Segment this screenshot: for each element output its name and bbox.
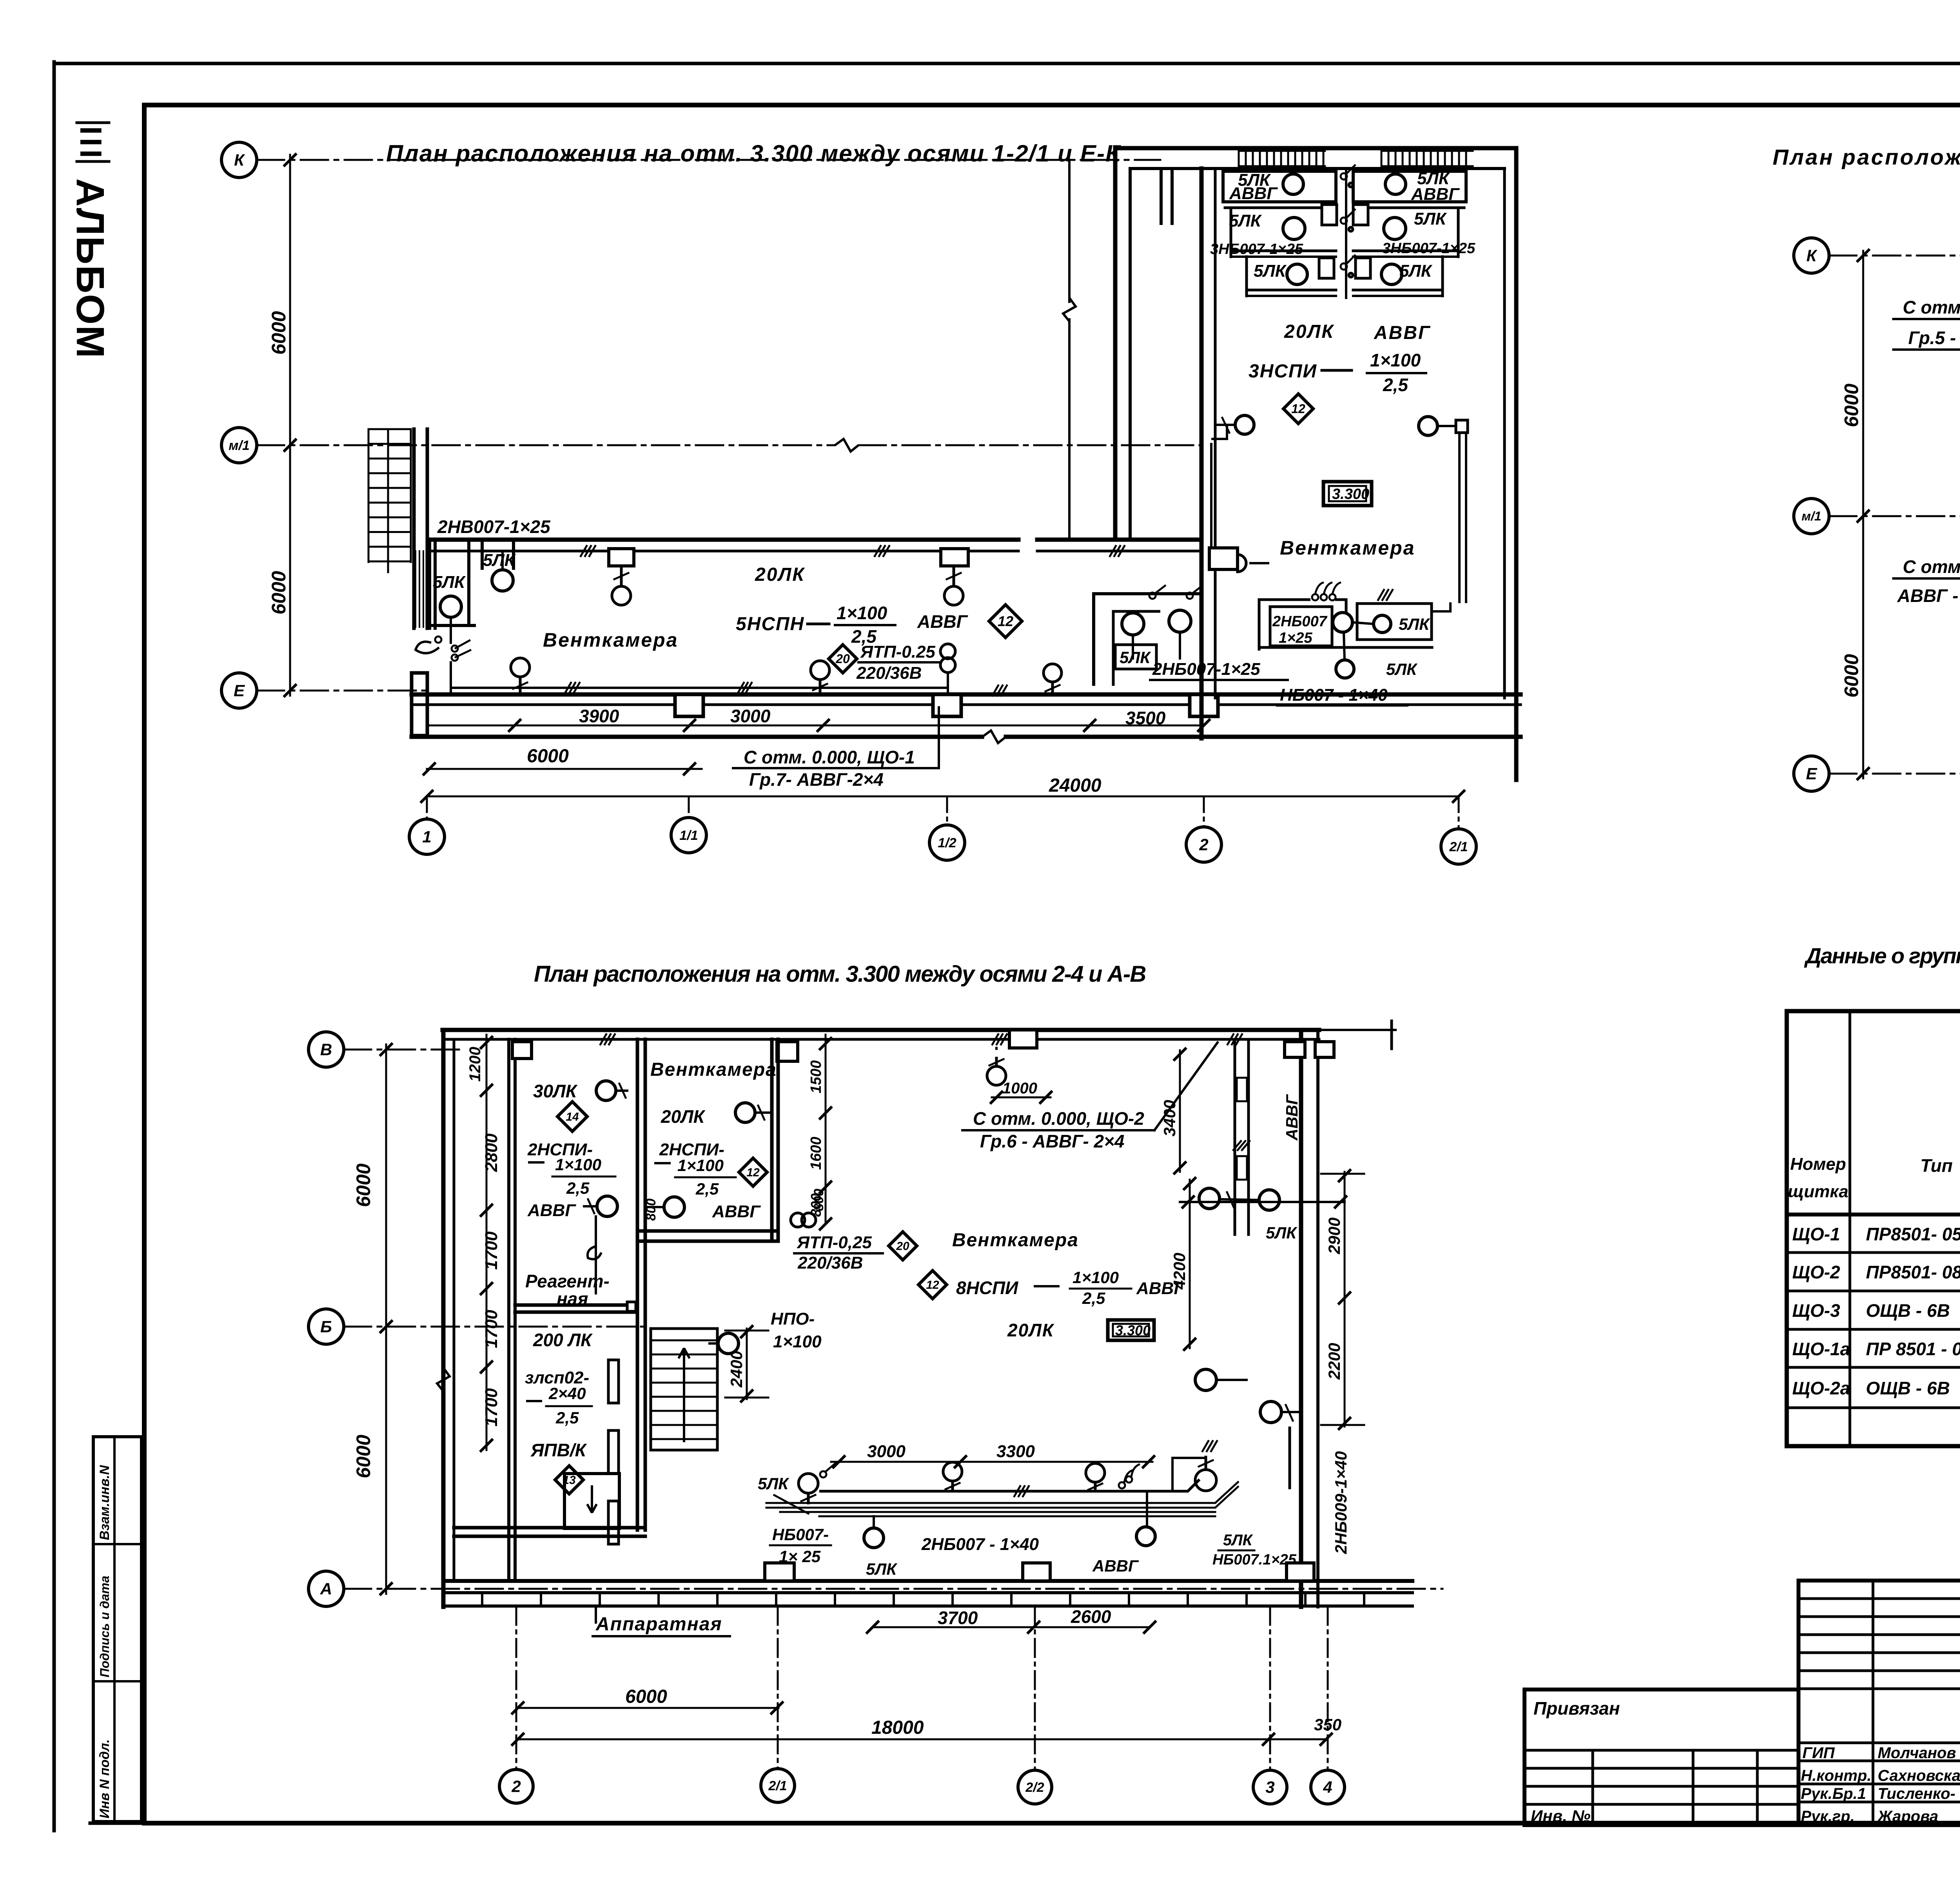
plan3 dim 2400 stairs (746, 1329, 748, 1399)
plan3 diamond 12 room (739, 1158, 767, 1186)
plan1 strip bottom wall (412, 692, 1521, 697)
svg-text:НБ007.1×25: НБ007.1×25 (1212, 1552, 1297, 1568)
plan3 stairs (651, 1329, 717, 1450)
svg-text:3500: 3500 (1125, 708, 1166, 728)
plan1 bottom cluster box2 (1357, 604, 1432, 640)
plan3 apparatnaya pit (564, 1474, 619, 1528)
svg-text:НПО-: НПО- (771, 1309, 815, 1329)
svg-text:12: 12 (1291, 402, 1305, 416)
plan3 wire left column (595, 1216, 597, 1293)
svg-text:АВВГ: АВВГ (1411, 185, 1460, 204)
plan3 right mid duct (1234, 1042, 1236, 1235)
svg-text:3НСПИ: 3НСПИ (1249, 361, 1317, 382)
svg-text:Тип: Тип (1920, 1155, 1953, 1176)
svg-text:ОЩВ - 6В: ОЩВ - 6В (1866, 1300, 1950, 1321)
plan3 heaters (608, 1360, 619, 1403)
plan3 dim 3700 2600 (873, 1626, 1150, 1628)
svg-text:20ЛК: 20ЛК (661, 1106, 706, 1127)
svg-text:Рук.Бр.1: Рук.Бр.1 (1801, 1785, 1866, 1802)
plan1 right cluster switches (1149, 593, 1156, 599)
plan3 bottom dim 6000 (516, 1707, 779, 1709)
plan1 diamond 20 and YaTP (829, 645, 857, 673)
plan3 dim 4200 (1189, 1180, 1191, 1348)
plan1 room lamp left (1235, 415, 1254, 434)
plan1 closet 2 walls (481, 542, 484, 568)
plan1 room mark 3.300 (1323, 482, 1372, 506)
plan3 axis circle A (309, 1571, 344, 1606)
svg-text:ЯТП-0.25: ЯТП-0.25 (860, 642, 935, 662)
svg-text:2НБ007 - 1×40: 2НБ007 - 1×40 (921, 1535, 1039, 1554)
plan1 diamond 12 strip (989, 605, 1022, 638)
svg-text:ЩО-1а: ЩО-1а (1792, 1339, 1850, 1359)
svg-text:С отм. 0.000, ЩО-1: С отм. 0.000, ЩО-1 (1903, 297, 1960, 317)
plan1 cluster boxes (1115, 645, 1156, 669)
plan3 reagent partition (515, 1303, 637, 1307)
plan1 pier axis 2 (1190, 694, 1218, 716)
table outer box (1787, 1011, 1960, 1446)
plan1 riser cable bundle (415, 551, 416, 627)
plan1 vent cluster left (1223, 171, 1336, 202)
svg-text:6000: 6000 (352, 1164, 374, 1207)
svg-text:ПР8501- 082: ПР8501- 082 (1866, 1262, 1960, 1282)
svg-text:2: 2 (1199, 836, 1208, 854)
svg-text:3400: 3400 (1160, 1100, 1179, 1137)
svg-text:Инв N подл.: Инв N подл. (97, 1739, 112, 1818)
margin strip table (93, 1437, 142, 1822)
svg-text:АВВГ: АВВГ (1092, 1557, 1139, 1575)
svg-text:20: 20 (896, 1240, 909, 1253)
svg-text:6000: 6000 (268, 571, 290, 615)
svg-text:2×40: 2×40 (548, 1384, 586, 1403)
svg-text:2НБ009-1×40: 2НБ009-1×40 (1332, 1451, 1350, 1554)
svg-text:3НБ007-1×25: 3НБ007-1×25 (1382, 240, 1475, 257)
svg-text:Подпись и дата: Подпись и дата (98, 1576, 112, 1677)
svg-text:АВВГ: АВВГ (527, 1201, 576, 1220)
svg-text:ЯПВ/К: ЯПВ/К (530, 1440, 587, 1460)
svg-text:800: 800 (644, 1198, 659, 1221)
svg-text:ЩО-3: ЩО-3 (1792, 1300, 1840, 1321)
svg-text:2,5: 2,5 (555, 1409, 579, 1427)
plan1 axis line E (257, 690, 425, 692)
svg-text:1×100: 1×100 (837, 603, 887, 623)
svg-text:Гр.5 - АВВГ- 2×2,5: Гр.5 - АВВГ- 2×2,5 (1908, 328, 1960, 348)
svg-text:4200: 4200 (1170, 1253, 1189, 1290)
svg-text:5ЛК: 5ЛК (1120, 648, 1151, 667)
svg-text:Аппаратная: Аппаратная (595, 1614, 722, 1635)
svg-text:2,5: 2,5 (1082, 1289, 1105, 1307)
svg-text:3.300: 3.300 (1115, 1322, 1151, 1338)
plan1 dim line 2 (427, 768, 702, 770)
svg-text:Молчанов: Молчанов (1878, 1744, 1956, 1762)
svg-text:3300: 3300 (996, 1442, 1035, 1461)
svg-text:2900: 2900 (1325, 1218, 1343, 1254)
svg-text:4: 4 (1323, 1778, 1332, 1796)
plan1 stair wall right (412, 429, 416, 628)
plan3 axis line V (344, 1049, 463, 1051)
plan1 room wall B (1200, 169, 1204, 738)
plan3 axis circle 2/1 (761, 1769, 795, 1802)
plan3 axis circle B (309, 1309, 344, 1344)
svg-text:5ЛК: 5ЛК (1229, 211, 1262, 230)
svg-text:5ЛК: 5ЛК (483, 551, 516, 570)
plan1 pier axis 1/1 (675, 694, 703, 716)
plan3 axis circle 4 (1311, 1770, 1345, 1804)
svg-text:3700: 3700 (938, 1608, 978, 1628)
plan3 right lamp wire line (1180, 1201, 1345, 1203)
svg-text:А: А (320, 1580, 332, 1598)
plan1 strip pendant 1 (609, 549, 634, 566)
svg-text:2,5: 2,5 (1383, 375, 1408, 395)
svg-text:АВВГ - 2×2.5: АВВГ - 2×2.5 (1897, 586, 1960, 606)
plan3 interior wall 1 (636, 1039, 639, 1530)
plan1 axis circle 1 (409, 819, 445, 854)
svg-text:Гр.7- АВВГ-2×4: Гр.7- АВВГ-2×4 (749, 769, 884, 790)
plan3 bottom right cluster (1172, 1458, 1206, 1491)
plan1 axis circle 1/2 (929, 825, 965, 860)
plan3 transformer (791, 1213, 805, 1227)
svg-text:Е: Е (234, 682, 245, 700)
plan3 axis circle 2/2 (1018, 1770, 1052, 1804)
svg-text:Номер: Номер (1790, 1155, 1846, 1174)
svg-text:2/2: 2/2 (1025, 1780, 1044, 1795)
svg-text:6000: 6000 (1840, 384, 1862, 427)
plan1 bottom axis stubs (426, 796, 428, 819)
plan2 axis line M/1 (1829, 515, 1960, 517)
plan3 bottom lamps (799, 1474, 818, 1493)
svg-text:ЯТП-0,25: ЯТП-0,25 (797, 1233, 872, 1252)
svg-text:3900: 3900 (579, 706, 619, 726)
svg-text:Привязан: Привязан (1534, 1698, 1620, 1719)
svg-text:ОЩВ - 6В: ОЩВ - 6В (1866, 1378, 1950, 1398)
svg-text:Е: Е (1806, 765, 1818, 783)
svg-text:5ЛК: 5ЛК (866, 1560, 898, 1578)
svg-text:Н.контр.: Н.контр. (1801, 1767, 1871, 1784)
svg-text:1: 1 (422, 828, 431, 846)
plan1 pier axis 1/2 (933, 694, 961, 716)
svg-text:2НБ007-1×25: 2НБ007-1×25 (1152, 660, 1260, 679)
svg-text:220/36В: 220/36В (797, 1253, 863, 1273)
svg-text:5ЛК: 5ЛК (1414, 209, 1447, 228)
svg-text:ПР8501- 054: ПР8501- 054 (1866, 1224, 1960, 1244)
svg-text:2НВ007-1×25: 2НВ007-1×25 (437, 517, 551, 537)
plan1 room right wall (1514, 148, 1519, 780)
svg-text:В: В (320, 1041, 332, 1059)
titleblock mid grid (1798, 1581, 1960, 1825)
plan3 mid dim line 1500 1600 800 (825, 1035, 827, 1224)
svg-text:АЛЬБОМ: АЛЬБОМ (68, 178, 112, 359)
svg-text:1700: 1700 (482, 1310, 501, 1348)
plan3 axis line B (344, 1326, 643, 1328)
svg-text:5НСПН: 5НСПН (736, 614, 804, 634)
plan1 axis circle 1/1 (671, 818, 706, 853)
plan1 axis circle 2/1 (1441, 829, 1476, 864)
plan1 dim line 1 (427, 725, 1204, 727)
svg-text:м/1: м/1 (1802, 509, 1821, 523)
svg-text:2200: 2200 (1325, 1343, 1343, 1380)
plan3 bottom wire run (819, 1490, 1147, 1493)
svg-text:1×100: 1×100 (555, 1155, 601, 1174)
plan3 pendant top (1009, 1030, 1037, 1048)
plan3 bottom wall piers (765, 1563, 794, 1581)
svg-text:1×100: 1×100 (677, 1156, 724, 1175)
svg-text:АВВГ: АВВГ (712, 1202, 761, 1221)
svg-text:К: К (234, 151, 245, 169)
plan1 axis circle K (221, 142, 257, 178)
svg-text:1×25: 1×25 (1279, 630, 1312, 646)
plan3 axis circle 3 (1253, 1770, 1287, 1804)
plan1 cluster wires center (1345, 171, 1347, 298)
plan1 room lamp right (1419, 417, 1437, 435)
svg-text:ЩО-2: ЩО-2 (1792, 1262, 1840, 1282)
svg-text:1500: 1500 (808, 1060, 824, 1093)
svg-text:20: 20 (835, 652, 850, 666)
plan2 axis line K (1829, 255, 1960, 257)
plan3 axis line A (344, 1588, 1443, 1590)
plan1 room bottom cluster wire (1259, 600, 1310, 651)
plan1 axis line K (257, 159, 1160, 161)
svg-text:6000: 6000 (352, 1435, 374, 1478)
plan3 formula 8NSPI (918, 1271, 947, 1299)
plan2 axis line E (1829, 773, 1960, 775)
plan1 right cluster wires (1094, 594, 1200, 686)
svg-text:Данные о групповых щитках с ав: Данные о групповых щитках с автоматическ… (1804, 943, 1960, 968)
svg-text:1×100: 1×100 (773, 1332, 822, 1351)
plan3 left dim line (385, 1044, 387, 1594)
plan1 room right riser (1458, 423, 1461, 602)
svg-text:20ЛК: 20ЛК (755, 564, 805, 585)
svg-text:5ЛК: 5ЛК (1254, 261, 1287, 281)
svg-text:12: 12 (926, 1279, 939, 1292)
plan1 switch wires left (416, 642, 439, 653)
svg-text:Б: Б (320, 1318, 332, 1336)
border outer frame (54, 62, 1960, 65)
plan3 top-right piers (1285, 1042, 1305, 1057)
plan1 bottom cluster junction lamps (1333, 613, 1352, 632)
svg-text:АВВГ: АВВГ (1229, 184, 1278, 203)
svg-text:6000: 6000 (527, 746, 569, 767)
plan3 bottom dim 18000 (516, 1738, 1328, 1740)
svg-text:Гр.6 - АВВГ- 2×4: Гр.6 - АВВГ- 2×4 (980, 1131, 1124, 1151)
plan1 room diamond 12 (1283, 394, 1313, 424)
plan3 diamond 13 (555, 1466, 583, 1494)
plan1 wire to bottom wall (450, 662, 452, 694)
plan1 room top stair hatch 1 (1238, 151, 1240, 166)
svg-text:ГИП: ГИП (1802, 1744, 1835, 1762)
svg-text:1000: 1000 (1002, 1080, 1037, 1097)
svg-text:14: 14 (566, 1111, 579, 1124)
plan1 closet1 lamp (440, 596, 461, 617)
svg-text:5ЛК: 5ЛК (1223, 1532, 1253, 1549)
plan1 right cluster lamps (1122, 613, 1144, 635)
svg-text:1/2: 1/2 (938, 836, 956, 850)
plan1 room top wall (1115, 146, 1516, 150)
plan1 room left wall box (1209, 548, 1238, 569)
table row lines (1787, 1251, 1960, 1254)
svg-text:3: 3 (1265, 1778, 1274, 1796)
plan2 axis circle M/1 (1794, 499, 1829, 534)
svg-text:13: 13 (563, 1474, 576, 1487)
svg-text:Венткамера: Венткамера (952, 1230, 1079, 1251)
plan2 axis circle K (1794, 238, 1829, 273)
plan3 dim 2900 (1344, 1172, 1346, 1301)
svg-text:Взам.инв.N: Взам.инв.N (97, 1465, 112, 1540)
svg-text:1200: 1200 (466, 1047, 484, 1082)
svg-text:План расположения на отм. 3.3: План расположения на отм. 3.300 между ос… (534, 961, 1146, 987)
svg-text:щитка: щитка (1788, 1182, 1848, 1201)
svg-text:III: III (74, 126, 108, 161)
svg-text:2НБ007: 2НБ007 (1272, 613, 1328, 630)
plan2 left dim line (1862, 251, 1864, 778)
plan3 dim 3000 3300 (831, 1461, 1152, 1463)
plan3 top wall (443, 1028, 1319, 1032)
plan1 axis circle M/1 (221, 428, 257, 463)
svg-text:Венткамера: Венткамера (1280, 537, 1415, 559)
svg-text:1600: 1600 (808, 1137, 824, 1170)
plan1 dim line 3 (427, 796, 1459, 798)
svg-text:АВВГ: АВВГ (1283, 1094, 1301, 1141)
plan1 strip lamps bottom row (511, 658, 530, 677)
svg-text:2,5: 2,5 (566, 1179, 590, 1197)
plan3 right wall (1299, 1030, 1303, 1607)
svg-text:2400: 2400 (727, 1351, 746, 1388)
plan3 interior wall 2 (770, 1039, 774, 1241)
plan3 bottom axis stubs (515, 1607, 517, 1769)
svg-text:Сахновская: Сахновская (1878, 1767, 1960, 1784)
plan1 closet2 lamp (492, 570, 513, 591)
svg-text:1700: 1700 (482, 1231, 501, 1270)
plan3 switches bottom (820, 1471, 826, 1477)
plan3 dim 3400 (1179, 1050, 1181, 1172)
svg-text:Жарова: Жарова (1877, 1808, 1938, 1825)
svg-text:2/1: 2/1 (1449, 839, 1468, 854)
svg-text:Венткамера: Венткамера (650, 1059, 777, 1080)
plan3 right top lamps (1199, 1188, 1220, 1209)
svg-text:С отм. 0.000, ЩО-1: С отм. 0.000, ЩО-1 (744, 747, 915, 767)
plan3 ventkamera room bottom wall (637, 1229, 778, 1233)
plan1 closet 1 walls (428, 542, 431, 628)
plan3 dim 2200 (1344, 1301, 1346, 1427)
svg-text:3000: 3000 (730, 706, 771, 726)
plan3 left inner dims (486, 1035, 488, 1450)
svg-text:5ЛК: 5ЛК (1266, 1224, 1298, 1242)
svg-text:3НБ007-1×25: 3НБ007-1×25 (1210, 241, 1303, 257)
svg-text:6000: 6000 (268, 311, 290, 355)
svg-text:С отм. 0.000: С отм. 0.000 (1903, 557, 1960, 577)
plan1 bottom wall left pier (412, 673, 427, 736)
plan2 axis circle E (1794, 756, 1829, 791)
svg-text:АВВГ: АВВГ (917, 611, 968, 632)
plan1 room top stair hatch 2 (1381, 151, 1383, 166)
svg-text:Рук.гр.: Рук.гр. (1801, 1808, 1855, 1825)
plan1 bottom cluster switch hooks (1312, 594, 1318, 600)
plan3 axis circle V (309, 1032, 344, 1067)
svg-text:План расположения на отм. 3.30: План расположения на отм. 3.300 между ос… (1773, 145, 1960, 169)
plan3 axis circle 2 (499, 1769, 533, 1803)
plan1 room cut line (1068, 160, 1071, 302)
svg-text:30ЛК: 30ЛК (533, 1081, 578, 1101)
plan1 bottom cluster box1 (1270, 607, 1332, 646)
svg-text:5ЛК: 5ЛК (758, 1474, 789, 1493)
plan1 room wall A (1113, 147, 1118, 540)
svg-text:1/1: 1/1 (679, 828, 698, 843)
svg-text:5ЛК: 5ЛК (1399, 615, 1430, 633)
svg-text:5ЛК: 5ЛК (1386, 660, 1418, 678)
svg-text:2,5: 2,5 (695, 1180, 719, 1198)
svg-text:С отм. 0.000, ЩО-2: С отм. 0.000, ЩО-2 (973, 1108, 1144, 1129)
svg-text:2600: 2600 (1071, 1606, 1111, 1627)
plan3 right lower lamps (1195, 1369, 1216, 1390)
plan1 axis line M/1 (257, 444, 835, 446)
svg-text:2: 2 (511, 1777, 521, 1796)
svg-text:м/1: м/1 (229, 438, 250, 453)
svg-text:НБ007 - 1×40: НБ007 - 1×40 (1280, 685, 1388, 705)
svg-text:3.300: 3.300 (1332, 486, 1369, 502)
svg-text:800: 800 (811, 1189, 826, 1211)
svg-text:5ЛК: 5ЛК (433, 573, 466, 592)
svg-text:Тисленко-: Тисленко- (1878, 1785, 1955, 1802)
plan3 lamps upper (596, 1081, 616, 1100)
svg-text:12: 12 (998, 613, 1013, 629)
plan1 stairs (368, 428, 411, 430)
svg-text:6000: 6000 (1840, 654, 1862, 698)
svg-text:План расположения на отм. 3.30: План расположения на отм. 3.300 между ос… (386, 140, 1122, 167)
plan3 bottom wall (443, 1579, 1412, 1583)
plan3 left wall (441, 1030, 446, 1607)
svg-text:20ЛК: 20ЛК (1284, 321, 1334, 342)
plan1 transformer symbol (940, 644, 955, 659)
plan3 diamond 14 (557, 1102, 587, 1131)
plan3 top wall end tick (1390, 1021, 1393, 1049)
plan1 room left wall wire (1211, 425, 1227, 439)
svg-text:2800: 2800 (482, 1133, 501, 1172)
svg-text:АВВГ: АВВГ (1374, 323, 1431, 343)
titleblock left box (1524, 1690, 1798, 1825)
svg-text:1×100: 1×100 (1370, 350, 1421, 370)
plan1 axis circle 2 (1186, 827, 1221, 862)
svg-text:ПР 8501 - 054: ПР 8501 - 054 (1866, 1339, 1960, 1359)
plan1 strip top wall (431, 538, 1018, 542)
svg-text:К: К (1806, 247, 1818, 265)
svg-text:8НСПИ: 8НСПИ (956, 1278, 1018, 1298)
svg-text:3000: 3000 (867, 1442, 906, 1461)
svg-text:1×100: 1×100 (1073, 1268, 1119, 1287)
svg-text:220/36В: 220/36В (856, 663, 922, 683)
plan1 room left step (1160, 169, 1163, 223)
plan1 left dim line (289, 155, 291, 696)
plan3 lamp at stairs (718, 1333, 739, 1354)
svg-text:6000: 6000 (625, 1686, 667, 1707)
svg-text:24000: 24000 (1049, 775, 1102, 796)
svg-text:ЩО-2а: ЩО-2а (1792, 1378, 1850, 1398)
svg-text:НБ007-: НБ007- (772, 1525, 829, 1544)
plan1 vent cluster right (1353, 171, 1466, 202)
svg-text:200 ЛК: 200 ЛК (533, 1330, 593, 1350)
plan1 strip pendant 2 (941, 549, 968, 566)
svg-text:Венткамера: Венткамера (543, 629, 678, 651)
svg-text:2/1: 2/1 (768, 1778, 787, 1793)
svg-text:18000: 18000 (871, 1717, 924, 1738)
svg-text:ЩО-1: ЩО-1 (1792, 1224, 1840, 1244)
table column lines (1849, 1011, 1851, 1446)
svg-text:12: 12 (746, 1166, 760, 1179)
plan3 top wall piers (512, 1042, 532, 1059)
plan3 mark 3.300 (1108, 1320, 1154, 1340)
plan1 axis circle E (221, 673, 257, 708)
svg-text:20ЛК: 20ЛК (1007, 1320, 1054, 1340)
plan3 lower partition (454, 1526, 645, 1530)
svg-text:ная: ная (557, 1289, 588, 1309)
svg-text:1700: 1700 (482, 1388, 501, 1427)
